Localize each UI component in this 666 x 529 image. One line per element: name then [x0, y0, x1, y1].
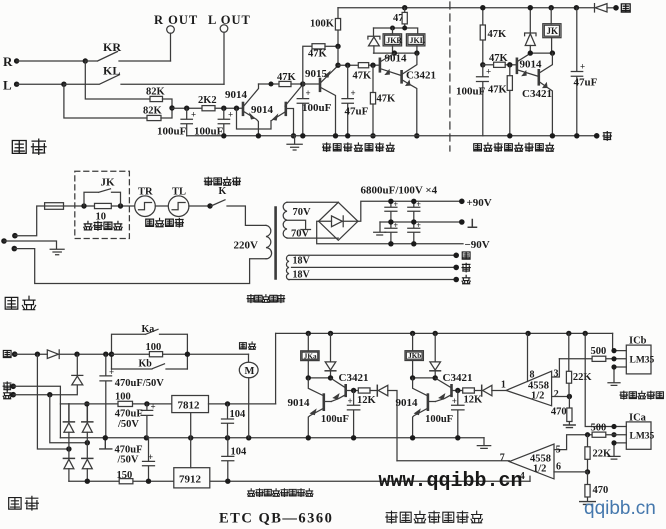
svg-text:+: + — [191, 110, 196, 120]
resistor 10 — [95, 203, 112, 222]
wire minus raw line — [69, 480, 530, 482]
resistor 47K top right — [480, 8, 507, 65]
node R input — [3, 54, 19, 69]
bridge rectifier — [319, 202, 358, 240]
svg-text:9014: 9014 — [251, 104, 274, 116]
svg-text:ETC QB—6360: ETC QB—6360 — [219, 511, 333, 527]
node Ka right — [185, 352, 190, 357]
node C3421 emitter rail — [414, 133, 419, 138]
resistor 22K b — [585, 435, 612, 472]
svg-text:8: 8 — [530, 370, 535, 381]
node r12 Db — [433, 331, 438, 336]
node L junction — [61, 82, 66, 87]
node Q2 base gnd — [291, 133, 296, 138]
node minus c470 — [146, 479, 151, 484]
node rail cap3 — [300, 133, 305, 138]
diode yellow feed — [595, 4, 617, 12]
svg-text:18V: 18V — [293, 256, 311, 267]
svg-text:+90V: +90V — [467, 197, 492, 209]
switch KR — [85, 40, 170, 61]
node 47K/base — [370, 62, 375, 67]
svg-text:470: 470 — [551, 407, 567, 418]
svg-text:+: + — [351, 88, 356, 98]
relay JKR — [383, 28, 402, 53]
wire relay top bus — [374, 28, 418, 34]
node diode brown tap — [74, 352, 79, 357]
node 47K rail — [370, 133, 375, 138]
svg-text:7812: 7812 — [178, 400, 201, 412]
wire R to 82K upper — [85, 61, 150, 99]
node sum — [169, 105, 174, 110]
diode neg lower-right — [82, 458, 93, 481]
transistor 9015 — [303, 66, 338, 136]
svg-text:1/2: 1/2 — [531, 391, 544, 402]
wire relay bottom bus — [374, 52, 418, 54]
svg-text:70V: 70V — [293, 207, 312, 218]
terminal R OUT — [154, 13, 198, 33]
svg-text:9014: 9014 — [396, 397, 419, 409]
resistor 82K lower — [143, 106, 172, 121]
label 启动保护 — [84, 221, 122, 230]
diode brown up — [72, 354, 83, 385]
svg-text:3: 3 — [554, 369, 559, 380]
wire TL to switch — [189, 205, 210, 207]
node rail 9015C — [333, 133, 338, 138]
svg-text:9014: 9014 — [385, 53, 408, 65]
terminal +90V — [459, 197, 492, 209]
svg-text:/50V: /50V — [117, 419, 139, 430]
svg-text:100uF: 100uF — [425, 414, 453, 425]
wire pin8 — [527, 333, 529, 381]
capacitor 104 b — [222, 438, 247, 481]
svg-text:470: 470 — [593, 485, 609, 496]
svg-text:C3421: C3421 — [406, 70, 436, 82]
node pin2 — [567, 394, 572, 399]
diode drive a — [377, 385, 397, 461]
node C3421 delay emitter — [550, 133, 555, 138]
resistor 100K — [310, 8, 341, 47]
svg-text:5: 5 — [556, 445, 561, 456]
wire pin7 out — [397, 460, 509, 462]
node rail c470b — [144, 435, 149, 440]
svg-text:7: 7 — [500, 453, 505, 464]
node 47K base right — [507, 62, 512, 67]
node bus JKR — [390, 26, 395, 31]
svg-text:R: R — [3, 54, 13, 69]
terminal orange FIG3 — [594, 133, 600, 139]
node base Ca — [351, 388, 356, 393]
resistor 470 b — [580, 472, 609, 505]
wire brown neg drop — [50, 395, 88, 443]
svg-text:6: 6 — [556, 462, 561, 473]
svg-text:Kb: Kb — [139, 358, 153, 369]
node neg left col — [66, 446, 71, 451]
terminal 0V — [459, 219, 477, 227]
capacitor 6800uF a — [385, 200, 399, 222]
node 470uF1 tap — [103, 352, 108, 357]
wire 0V line — [380, 221, 462, 223]
node rail 47uF — [345, 133, 350, 138]
svg-text:22K: 22K — [593, 449, 613, 460]
capacitor 470uF 3 — [115, 438, 155, 481]
svg-text:10: 10 — [96, 212, 107, 223]
wire TR-TL — [155, 205, 168, 207]
svg-text:+: + — [452, 396, 457, 406]
diode yellow rect — [47, 350, 111, 359]
wire secondary top lead — [287, 201, 338, 203]
transformer secondary 70V windings — [283, 202, 311, 239]
fan motor M — [239, 342, 258, 438]
wire JKa node — [308, 377, 330, 379]
node 47K/100K — [335, 44, 340, 49]
svg-text:47K: 47K — [308, 49, 328, 60]
node JKb a — [410, 375, 415, 380]
ground 0V end — [477, 438, 490, 449]
node rail JKa e — [306, 435, 311, 440]
svg-text:+: + — [580, 62, 585, 72]
node ICb p1 — [611, 348, 616, 353]
svg-text:C3421: C3421 — [522, 88, 552, 100]
wire emitter row — [338, 64, 358, 66]
transformer core — [274, 208, 277, 279]
resistor 47K pulldown — [370, 65, 396, 136]
wire yellow neg drop — [37, 354, 69, 449]
node 22Kb top — [585, 432, 590, 437]
svg-text:+: + — [306, 88, 311, 98]
title CJK — [386, 511, 483, 523]
wire JKb node — [413, 377, 436, 379]
transistor C3421 fan b — [435, 372, 472, 402]
svg-text:47K: 47K — [377, 94, 397, 105]
svg-text:JKa: JKa — [304, 352, 317, 360]
wire node down — [337, 46, 339, 65]
resistor 47 — [393, 8, 407, 28]
label 扬声器保护电路 — [323, 143, 395, 151]
terminal orange lead — [453, 263, 470, 272]
node ICa p1 — [611, 424, 616, 429]
node rail right pulldown — [507, 133, 512, 138]
svg-text:100uF: 100uF — [302, 102, 332, 114]
capacitor 6800uF d — [408, 221, 422, 244]
transistor C3421 delay — [522, 53, 552, 136]
node base Q1 — [234, 106, 239, 111]
sensor ICa LM35 — [626, 412, 654, 449]
terminal brown lead — [453, 275, 470, 283]
svg-text:+: + — [348, 396, 353, 406]
svg-text:18V: 18V — [293, 270, 311, 281]
svg-text:−90V: −90V — [465, 239, 490, 251]
node minus right col — [85, 479, 90, 484]
capacitor 100uF (2) — [194, 108, 233, 137]
capacitor 6800uF c — [385, 221, 399, 244]
node ICa p2 — [611, 432, 616, 437]
separator dashed — [449, 2, 451, 151]
wire orange down to rail — [13, 386, 60, 438]
wire ICb gnd — [608, 367, 626, 385]
wire sum to 2K2 — [172, 107, 202, 109]
wire R OUT drop — [170, 33, 172, 61]
wire center tap — [287, 220, 311, 229]
svg-text:JKR: JKR — [386, 36, 402, 45]
node 100uF right — [480, 62, 485, 67]
capacitor 6800uF b — [408, 200, 422, 222]
resistor 500 b — [554, 423, 626, 450]
node bus Q collector — [392, 50, 397, 55]
capacitor 100uF fan b — [425, 391, 464, 438]
node switch K — [207, 203, 212, 208]
svg-text:+: + — [151, 402, 156, 412]
label 交流启动延迟电路 — [474, 143, 554, 151]
node r12 JKb — [410, 331, 415, 336]
node JK contact left — [81, 203, 86, 208]
wire collector Q1 row — [259, 83, 280, 85]
node rail 100uFb — [455, 435, 460, 440]
resistor 150 — [117, 470, 133, 484]
wire R line — [17, 60, 86, 62]
node ICb p2 — [611, 356, 616, 361]
resistor 47K emitter row — [353, 63, 380, 82]
node JKa a — [306, 375, 311, 380]
label orange FIG3 — [603, 132, 611, 141]
wire fuse to TR — [64, 205, 135, 207]
label fan control — [248, 489, 313, 497]
svg-text:9014: 9014 — [288, 397, 311, 409]
node rail 47uF bottom — [574, 133, 579, 138]
label 过热保护 — [146, 218, 184, 227]
capacitor 47uF (1) — [342, 65, 369, 136]
svg-text:JKb: JKb — [408, 352, 421, 360]
wire 12V riser — [275, 333, 277, 404]
svg-text:C3421: C3421 — [443, 372, 473, 384]
wire zener-JK bottom — [530, 52, 552, 54]
zener D1 — [368, 28, 380, 53]
svg-text:47K: 47K — [488, 85, 508, 96]
switch block Ka — [112, 324, 188, 369]
resistor 12K b — [463, 388, 483, 406]
relay JKb — [405, 333, 423, 378]
svg-text:+: + — [394, 200, 399, 209]
wire DC minus — [317, 221, 463, 244]
svg-text:M: M — [245, 366, 255, 377]
dashed box startup protect — [75, 171, 130, 238]
node ICb p3 — [611, 364, 616, 369]
svg-text:+: + — [486, 67, 491, 77]
terminal yellow lead — [453, 252, 470, 259]
capacitor 47uF (2) — [571, 8, 597, 136]
node cap1 tap — [184, 106, 189, 111]
node zener bottom — [528, 50, 533, 55]
node minus b — [411, 241, 416, 246]
node r12 pin8 — [525, 331, 530, 336]
diode JKb flyback — [430, 333, 441, 378]
capacitor 470uF 1 — [100, 354, 164, 438]
resistor 82K upper — [146, 87, 172, 109]
terminal yellow — [613, 5, 619, 11]
node rail JK — [549, 5, 554, 10]
node mid b — [411, 219, 416, 224]
node R junction — [83, 58, 88, 63]
diode neg lower-left — [63, 458, 74, 481]
svg-text:104: 104 — [230, 409, 247, 420]
resistor 500 a — [559, 346, 626, 361]
svg-text:100uF: 100uF — [321, 414, 349, 425]
node base 9015 — [300, 81, 305, 86]
zener D2 — [525, 8, 536, 53]
node upper-right top — [84, 401, 89, 406]
node L input — [3, 78, 19, 93]
svg-text:9014: 9014 — [225, 89, 248, 101]
resistor 470 a — [551, 397, 575, 428]
regulator 7812 — [172, 396, 276, 438]
node collector joint — [269, 82, 274, 87]
resistor 100 input — [115, 392, 133, 407]
svg-text:6800uF/100V ×4: 6800uF/100V ×4 — [361, 185, 438, 197]
wire ICb power — [613, 333, 627, 350]
chassis 0V tap — [374, 222, 386, 235]
svg-text:9014: 9014 — [520, 59, 543, 71]
capacitor 100uF (4) — [456, 65, 491, 136]
wire earth — [4, 241, 57, 248]
node 47uF tap — [345, 62, 350, 67]
terminal orange in — [3, 382, 16, 390]
node ICa p3 — [611, 440, 616, 445]
capacitor 470uF 2 — [115, 402, 156, 438]
resistor 22K a — [566, 333, 592, 396]
node bus 47 — [402, 26, 407, 31]
wire brown line — [13, 386, 77, 395]
wire neutral loop — [14, 249, 266, 284]
terminal AC neutral — [12, 246, 18, 252]
resistor 47K series right — [483, 53, 517, 67]
svg-text:+: + — [394, 221, 399, 230]
svg-text:JKL: JKL — [410, 36, 426, 45]
svg-text:47uF: 47uF — [345, 106, 369, 118]
chassis stub 0V — [100, 438, 112, 449]
svg-text:+: + — [228, 110, 233, 120]
svg-text:+: + — [148, 452, 153, 462]
node rail 100uFa — [351, 435, 356, 440]
transistor C3421 driver — [402, 53, 436, 136]
label 电源开关 — [204, 177, 240, 185]
transistor 9014 fan a — [288, 378, 332, 438]
svg-text:12K: 12K — [464, 395, 484, 406]
svg-text:22K: 22K — [573, 372, 593, 383]
svg-text:100uF: 100uF — [157, 126, 187, 138]
terminal L OUT — [208, 13, 251, 32]
wire L OUT drop — [223, 32, 225, 84]
op-amp U1 4558 — [501, 369, 559, 406]
switch KL — [64, 64, 224, 85]
node JK bottom — [550, 50, 555, 55]
thermal switch TR — [135, 187, 156, 217]
wire pin3 — [552, 359, 560, 377]
rail top FIG3 — [338, 7, 595, 9]
resistor 2K2 — [198, 95, 242, 111]
label fig5 — [9, 496, 39, 510]
rail 12V fig5 — [276, 332, 613, 334]
svg-text:47K: 47K — [353, 71, 373, 82]
node 100 out — [144, 401, 149, 406]
diode JKa flyback — [325, 333, 336, 378]
wire live up to fuse — [15, 206, 45, 236]
wire pin6 — [554, 471, 588, 473]
wire secondary bottom lead — [287, 237, 338, 239]
node bus JKL bottom — [414, 50, 419, 55]
node Ka left — [109, 352, 114, 357]
wire 18V brown lead — [289, 279, 456, 281]
svg-text:100uF: 100uF — [456, 86, 486, 98]
svg-text:L OUT: L OUT — [208, 13, 251, 27]
resistor 12K a — [357, 388, 377, 406]
svg-text:+: + — [416, 221, 421, 230]
wire DC plus — [358, 201, 462, 221]
node cap2 tap — [221, 106, 226, 111]
svg-text:12K: 12K — [357, 395, 377, 406]
transistor 9014 driver — [380, 53, 407, 76]
wire Q1 base down loop — [237, 108, 272, 129]
terminal brown in — [3, 390, 16, 398]
node r12 22K — [566, 331, 571, 336]
wire ICa gnd — [608, 443, 626, 459]
op-amp U2 4558 — [500, 444, 561, 482]
svg-text:qqibb.cn: qqibb.cn — [584, 498, 656, 519]
svg-text:JK: JK — [101, 177, 116, 189]
svg-text:104: 104 — [231, 447, 248, 458]
transformer primary 220V — [234, 225, 272, 258]
transistor 9014 delay — [517, 53, 542, 76]
node 9015 emitter — [335, 62, 340, 67]
svg-text:500: 500 — [591, 346, 607, 357]
node plus b — [411, 199, 416, 204]
transistor C3421 fan a — [331, 372, 369, 402]
svg-text:47K: 47K — [488, 29, 508, 40]
svg-text:/50V: /50V — [117, 455, 139, 466]
node JK contact right — [118, 203, 123, 208]
svg-text:1: 1 — [501, 379, 506, 390]
wire main 12V line — [60, 403, 171, 405]
node yellow neg tap — [35, 352, 40, 357]
wire yellow to diode — [15, 353, 48, 355]
svg-text:JK: JK — [547, 26, 559, 36]
transformer secondary 18V windings — [286, 255, 310, 280]
svg-text:2K2: 2K2 — [198, 95, 217, 106]
svg-text:7912: 7912 — [179, 474, 202, 486]
terminal AC earth — [1, 238, 7, 244]
svg-text:1/2: 1/2 — [533, 464, 546, 475]
node rail JKb e — [410, 435, 415, 440]
relay JKL — [406, 34, 425, 53]
node brown neg tap — [47, 392, 52, 397]
wire pin4 — [529, 476, 531, 481]
relay JK — [543, 8, 561, 53]
node minus 104b — [225, 479, 230, 484]
svg-text:220V: 220V — [234, 240, 259, 252]
svg-text:L: L — [3, 78, 12, 93]
node JKa b — [328, 375, 333, 380]
node JKb b — [433, 375, 438, 380]
terminal yellow in — [3, 350, 17, 357]
node rail emitters — [256, 133, 261, 138]
relay JKa — [301, 333, 319, 378]
ground FIG3 — [287, 136, 302, 150]
label yellow — [621, 4, 630, 12]
node rail c470a — [103, 435, 108, 440]
svg-text:470uF/50V: 470uF/50V — [115, 378, 164, 389]
transistor Q1 9014 left — [225, 84, 259, 136]
node mid a — [388, 219, 393, 224]
node rail 104a — [225, 435, 230, 440]
svg-text:47uF: 47uF — [574, 77, 598, 89]
